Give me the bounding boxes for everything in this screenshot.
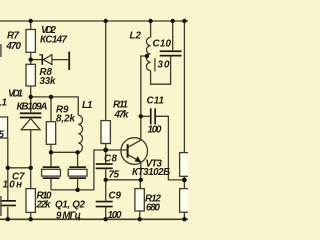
svg-text:,1: ,1: [0, 97, 7, 108]
svg-text:10н: 10н: [3, 180, 23, 191]
svg-text:22k: 22k: [36, 200, 52, 211]
svg-text:470: 470: [5, 41, 21, 52]
svg-text:30: 30: [158, 59, 171, 70]
svg-text:75: 75: [109, 169, 120, 180]
svg-text:L2: L2: [130, 30, 142, 41]
svg-text:8,2k: 8,2k: [56, 113, 76, 124]
svg-text:L1: L1: [82, 100, 93, 111]
svg-text:КВ109А: КВ109А: [17, 101, 48, 112]
svg-text:680: 680: [146, 202, 161, 213]
svg-text:5: 5: [0, 129, 5, 140]
svg-text:9 МГц: 9 МГц: [56, 210, 81, 221]
svg-text:R7: R7: [7, 31, 20, 42]
svg-text:C11: C11: [147, 95, 165, 106]
svg-text:C9: C9: [109, 190, 122, 201]
svg-text:Q1, Q2: Q1, Q2: [55, 199, 86, 210]
svg-text:КТ3102Б: КТ3102Б: [132, 167, 170, 178]
svg-text:33k: 33k: [40, 76, 57, 87]
svg-text:C8: C8: [104, 153, 118, 164]
svg-text:C10: C10: [153, 38, 172, 49]
svg-text:100: 100: [148, 124, 163, 135]
svg-text:VD1: VD1: [8, 88, 23, 99]
svg-text:100: 100: [108, 210, 123, 221]
svg-text:47k: 47k: [114, 109, 130, 120]
svg-text:КС147: КС147: [40, 35, 68, 46]
